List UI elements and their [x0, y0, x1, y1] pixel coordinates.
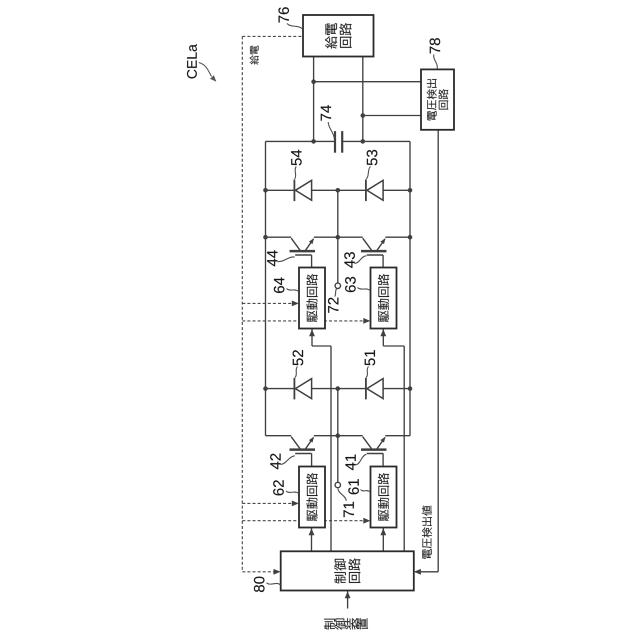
- wire lower diode row: [266, 388, 411, 390]
- junction supply B / detection tap: [361, 113, 366, 118]
- label 78 leader: [434, 55, 438, 69]
- drive circuit box 62: [299, 467, 325, 528]
- arrow control into drive circuit 63: [380, 329, 386, 336]
- label 42 leader: [281, 456, 295, 465]
- wire dashed feed line vertical (CELa boundary feed): [241, 36, 243, 571]
- junction right rail / upper transistor row: [408, 235, 413, 240]
- label 74 leader: [328, 122, 334, 139]
- voltage detection box 78: [421, 69, 454, 129]
- label 制御装置 (control device): [324, 619, 335, 630]
- label 41: [345, 454, 355, 470]
- wire dashed feed to power supply box 76: [242, 35, 303, 37]
- wire upper transistor row segment 2: [314, 236, 363, 238]
- arrow control into drive circuit 62: [309, 528, 315, 535]
- label 電圧検出値 (voltage detection value): [422, 506, 432, 559]
- power supply box 76: [303, 15, 374, 57]
- wire right DC rail: [409, 141, 411, 435]
- wire gate of Q42 to drive circuit 62: [311, 453, 313, 466]
- arrow dashed into drive circuit 62: [292, 501, 299, 507]
- label 71: [344, 502, 354, 517]
- label 78: [430, 38, 441, 53]
- label 44 leader: [278, 257, 295, 262]
- label 52 leader: [295, 367, 298, 378]
- diode 53: [367, 180, 383, 200]
- wire control circuit to drive circuit 61: [382, 528, 384, 552]
- transistor Q43: [363, 238, 372, 250]
- label 62 leader: [286, 491, 299, 494]
- label 76 leader: [287, 24, 303, 30]
- drive circuit box 64: [299, 268, 325, 329]
- wire lower midpoint to node 71: [337, 389, 339, 483]
- label 61 leader: [361, 490, 371, 493]
- wire dashed feed into control circuit 80: [242, 571, 278, 573]
- arrow control into drive circuit 64: [309, 329, 315, 336]
- control circuit box 80: [281, 551, 414, 590]
- wire gate of Q43 to drive circuit 63: [382, 255, 384, 268]
- junction left rail / upper diode row: [263, 188, 268, 193]
- wire upper transistor row segment 1: [266, 236, 292, 238]
- label 63 leader: [358, 288, 371, 291]
- wire dashed control signal to drive circuit 61: [242, 520, 368, 522]
- wire supply A to voltage detection box 78: [314, 81, 421, 83]
- arrow dashed into drive circuit 61: [363, 518, 370, 524]
- label 76: [278, 7, 289, 22]
- junction right rail / lower diode row: [408, 386, 413, 391]
- label 74: [321, 105, 331, 120]
- label 42: [270, 454, 280, 470]
- wire lower transistor row segment 2: [314, 435, 363, 437]
- label 61: [348, 479, 359, 494]
- wire voltage detection output to control circuit: [437, 130, 439, 572]
- wire left DC rail: [265, 141, 267, 435]
- junction supply A / detection tap: [311, 79, 316, 84]
- voltage detection box 78 text 電圧検出回路: [427, 79, 448, 120]
- wire control circuit to drive circuit 63 (with jog): [382, 329, 384, 347]
- diode 54: [295, 180, 311, 200]
- wire upper midpoint to node 72: [337, 190, 339, 283]
- label 64: [274, 277, 285, 292]
- arrow control device into control circuit 80: [345, 591, 351, 598]
- wire gate of Q44 to drive circuit 64: [311, 255, 313, 268]
- diode 52: [295, 379, 311, 399]
- label 51 leader: [366, 367, 368, 378]
- label 41 leader: [356, 454, 367, 465]
- label 72: [328, 298, 338, 313]
- label 71 leader: [338, 489, 346, 501]
- label 63: [345, 277, 356, 292]
- junction mid / upper transistor row: [336, 235, 341, 240]
- wire gate of Q41 to drive circuit 61: [382, 453, 384, 466]
- node 72 terminal circle: [335, 283, 340, 288]
- wire dashed control signal to drive circuit 62: [242, 502, 296, 504]
- drive circuit box 64 text 駆動回路: [306, 274, 317, 322]
- wire dashed control signal to drive circuit 64: [242, 302, 296, 304]
- label 51: [365, 350, 375, 365]
- arrow dashed into drive circuit 63: [363, 318, 370, 324]
- label 80: [254, 577, 265, 592]
- transistor Q44: [291, 238, 300, 250]
- label 54 leader: [295, 167, 297, 180]
- drive circuit box 63 text 駆動回路: [378, 274, 389, 322]
- diode 51: [367, 379, 383, 399]
- arrow dashed into control circuit 80: [274, 569, 281, 575]
- label 給電 (feed): [250, 46, 259, 65]
- label 64 leader: [287, 289, 299, 292]
- capacitor 74 plates: [334, 131, 336, 153]
- drive circuit box 61: [371, 467, 397, 528]
- junction left rail / upper transistor row: [263, 235, 268, 240]
- label 80 leader: [267, 583, 281, 585]
- wire control circuit to drive circuit 64 (with jog): [311, 329, 313, 347]
- control circuit box 80 text 制御回路: [334, 558, 360, 583]
- junction right rail / upper diode row: [408, 188, 413, 193]
- power supply box 76 text 給電回路: [325, 23, 352, 49]
- wire top rail right segment (from capacitor): [342, 140, 410, 142]
- transistor Q41: [363, 437, 372, 449]
- junction left rail / lower diode row: [263, 386, 268, 391]
- node 71 terminal circle: [335, 482, 340, 487]
- wire upper diode row: [266, 189, 411, 191]
- arrow dashed into drive circuit 64: [292, 301, 299, 307]
- label 72 leader: [335, 289, 337, 297]
- label 43: [344, 252, 355, 268]
- junction mid / upper diode row: [336, 188, 341, 193]
- label 52: [293, 350, 304, 365]
- label 43 leader: [355, 256, 367, 264]
- label CELa arrow: [199, 63, 212, 77]
- wire supply line B from box 76: [362, 57, 364, 142]
- wire supply B to voltage detection box 78: [363, 115, 421, 117]
- arrow detection value into control circuit 80: [414, 569, 421, 575]
- label 54: [291, 150, 301, 166]
- wire from control device into control circuit 80: [347, 591, 349, 609]
- label 53 leader: [366, 167, 370, 180]
- drive circuit box 62 text 駆動回路: [306, 473, 317, 521]
- wire lower transistor row segment 3: [385, 435, 410, 437]
- label 62: [273, 480, 284, 495]
- junction supply A / top rail: [311, 139, 316, 144]
- junction mid / lower transistor row: [336, 433, 341, 438]
- label 53: [367, 150, 378, 165]
- wire top rail left segment (to capacitor): [266, 140, 336, 142]
- drive circuit box 63: [371, 268, 397, 329]
- junction mid / lower diode row: [336, 386, 341, 391]
- wire control circuit to drive circuit 62: [311, 528, 313, 552]
- junction supply B / top rail: [361, 139, 366, 144]
- arrow control into drive circuit 61: [380, 528, 386, 535]
- wire dashed control signal to drive circuit 63: [242, 320, 368, 322]
- drive circuit box 61 text 駆動回路: [378, 473, 389, 521]
- wire lower transistor row segment 1: [266, 435, 292, 437]
- transistor Q42: [291, 437, 300, 449]
- label 44: [267, 250, 277, 266]
- wire supply line A from box 76: [313, 57, 315, 142]
- wire upper transistor row segment 3: [385, 236, 410, 238]
- label CELa: [187, 44, 197, 78]
